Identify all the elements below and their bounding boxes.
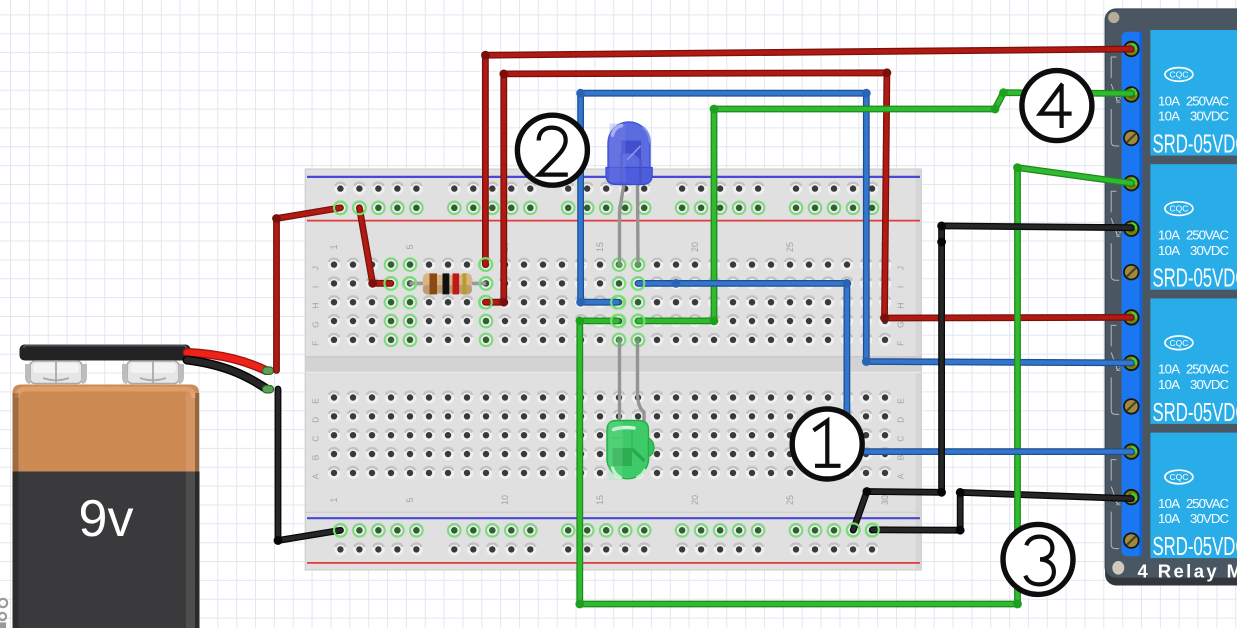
relay module screw terminals	[1123, 41, 1139, 549]
svg-text:1: 1	[329, 497, 339, 502]
svg-text:10A: 10A	[1158, 362, 1180, 377]
relay K3 ratings text	[1158, 362, 1229, 392]
svg-text:A: A	[311, 473, 321, 479]
wire red battery+ to top rail	[272, 208, 340, 371]
LED2 leg hole tints	[616, 337, 640, 343]
corner logo marks	[0, 599, 7, 628]
svg-text:10A: 10A	[1158, 93, 1180, 108]
callout circle 3	[1003, 524, 1073, 594]
svg-text:4 Relay M: 4 Relay M	[1138, 561, 1237, 582]
svg-text:250VAC: 250VAC	[1186, 228, 1229, 243]
svg-text:10A: 10A	[1158, 228, 1180, 243]
breadboard bottom rail red line	[307, 562, 920, 564]
wire black bottom rail to relay K2 terminal	[853, 222, 1131, 530]
svg-text:250VAC: 250VAC	[1186, 496, 1229, 511]
breadboard top rail red line	[307, 220, 920, 222]
svg-text:I: I	[311, 286, 321, 288]
LED1 blue legs	[620, 183, 639, 266]
wire blue breadboard H16 to relay K3 terminal	[576, 89, 1131, 366]
svg-text:C: C	[896, 436, 906, 442]
svg-text:B: B	[311, 454, 321, 460]
svg-text:J: J	[896, 266, 906, 270]
relay K2 body	[1150, 164, 1237, 290]
wire green breadboard G16 to relay K2 terminal	[575, 163, 1131, 608]
svg-text:5: 5	[405, 244, 415, 249]
svg-text:SRD-05VDC: SRD-05VDC	[1153, 533, 1237, 561]
wire black bottom rail to relay K4 terminal	[872, 488, 1131, 535]
svg-text:30VDC: 30VDC	[1190, 243, 1229, 258]
svg-text:10A: 10A	[1158, 496, 1180, 511]
wire red breadboard J9 to relay K1 terminal	[481, 49, 1131, 265]
svg-text:25: 25	[785, 242, 795, 252]
relay K4 CQC logo	[1165, 470, 1193, 484]
svg-text:H: H	[896, 303, 906, 309]
svg-text:CQC: CQC	[1169, 69, 1188, 79]
relay K1 CQC logo	[1165, 68, 1193, 82]
battery black lead	[187, 360, 266, 389]
connection rings over plugged holes	[334, 201, 879, 536]
svg-text:CQC: CQC	[1169, 338, 1188, 348]
battery 9V body	[13, 385, 200, 628]
svg-text:15: 15	[595, 495, 605, 505]
svg-text:J: J	[311, 266, 321, 270]
svg-text:A: A	[896, 473, 906, 479]
relay K1 silkscreen	[1111, 57, 1119, 146]
svg-text:10A: 10A	[1158, 377, 1180, 392]
breadboard bottom power rail holes	[334, 524, 878, 556]
LED1 blue body	[606, 122, 652, 185]
relay K2 CQC logo	[1165, 202, 1193, 216]
resistor R1 leads	[410, 282, 487, 286]
breadboard column numbers	[329, 242, 890, 505]
wire green breadboard G17 to relay K1 terminal	[638, 88, 1131, 325]
relay K4 ratings text	[1158, 496, 1229, 526]
svg-text:SRD-05VDC: SRD-05VDC	[1153, 399, 1237, 427]
svg-text:H: H	[311, 303, 321, 309]
relay K2 silkscreen	[1111, 191, 1119, 280]
battery top cap	[20, 345, 191, 361]
svg-text:1: 1	[329, 244, 339, 249]
svg-text:10: 10	[500, 495, 510, 505]
svg-text:5: 5	[405, 497, 415, 502]
LED2 green legs	[620, 340, 645, 421]
LED2 green body	[607, 421, 654, 481]
svg-text:10A: 10A	[1158, 109, 1180, 124]
svg-text:C: C	[311, 436, 321, 442]
wire blue breadboard I17 to relay K4 terminal	[638, 279, 1131, 456]
battery red lead	[187, 353, 266, 371]
relay K4 silkscreen	[1111, 460, 1119, 549]
wire black battery- to bottom rail	[274, 389, 341, 545]
svg-text:G: G	[896, 321, 906, 328]
svg-text:G: G	[311, 321, 321, 328]
svg-text:D: D	[311, 417, 321, 423]
svg-text:9v: 9v	[79, 490, 134, 548]
svg-text:E: E	[311, 398, 321, 404]
svg-text:F: F	[311, 341, 321, 346]
svg-text:F: F	[896, 341, 906, 346]
wire red top rail to row I col4	[359, 208, 390, 288]
relay K4 body	[1150, 433, 1237, 558]
relay terminal glints	[1132, 45, 1136, 500]
svg-text:10A: 10A	[1158, 511, 1180, 526]
svg-text:30VDC: 30VDC	[1190, 511, 1229, 526]
relay K1 ratings text	[1158, 93, 1229, 123]
svg-text:D: D	[896, 417, 906, 423]
relay module mounting hole bottom	[1112, 561, 1124, 575]
battery terminal positive	[122, 361, 184, 384]
battery terminal negative	[25, 361, 87, 384]
svg-text:B: B	[896, 454, 906, 460]
breadboard row letters	[311, 266, 906, 479]
svg-text:CQC: CQC	[1169, 204, 1188, 214]
breadboard top power rail holes	[334, 182, 878, 214]
svg-text:250VAC: 250VAC	[1186, 362, 1229, 377]
svg-text:I: I	[896, 286, 906, 288]
callout circle 4	[1022, 71, 1092, 141]
breadboard bottom rail blue line	[307, 517, 920, 519]
LED1 leg hole tints	[616, 262, 641, 268]
svg-text:20: 20	[690, 242, 700, 252]
relay K2 ratings text	[1158, 228, 1229, 258]
relay module PCB	[1105, 9, 1237, 586]
wire red breadboard H9 to relay K3 terminal	[485, 68, 1131, 322]
svg-text:25: 25	[785, 495, 795, 505]
svg-text:SRD-05VDC: SRD-05VDC	[1153, 131, 1237, 159]
svg-text:10A: 10A	[1158, 243, 1180, 258]
svg-text:SRD-05VDC: SRD-05VDC	[1153, 265, 1237, 293]
relay module terminal strip	[1122, 32, 1143, 557]
relay K3 body	[1150, 298, 1237, 424]
svg-text:30VDC: 30VDC	[1190, 109, 1229, 124]
relay module mounting hole top	[1108, 12, 1119, 23]
breadboard top rail blue line	[307, 176, 920, 178]
svg-text:30: 30	[880, 495, 890, 505]
relay K3 silkscreen	[1111, 325, 1119, 414]
svg-text:30VDC: 30VDC	[1190, 377, 1229, 392]
svg-text:250VAC: 250VAC	[1186, 93, 1229, 108]
svg-text:20: 20	[690, 495, 700, 505]
relay K3 CQC logo	[1165, 336, 1193, 350]
svg-text:E: E	[896, 398, 906, 404]
relay K1 body	[1150, 30, 1237, 156]
svg-text:15: 15	[595, 242, 605, 252]
callout circle 2	[517, 115, 587, 185]
callout circle 1	[792, 409, 862, 479]
resistor R1 body	[423, 273, 472, 295]
breadboard body	[305, 169, 921, 570]
breadboard main grid holes	[328, 258, 891, 479]
svg-text:CQC: CQC	[1169, 472, 1188, 482]
